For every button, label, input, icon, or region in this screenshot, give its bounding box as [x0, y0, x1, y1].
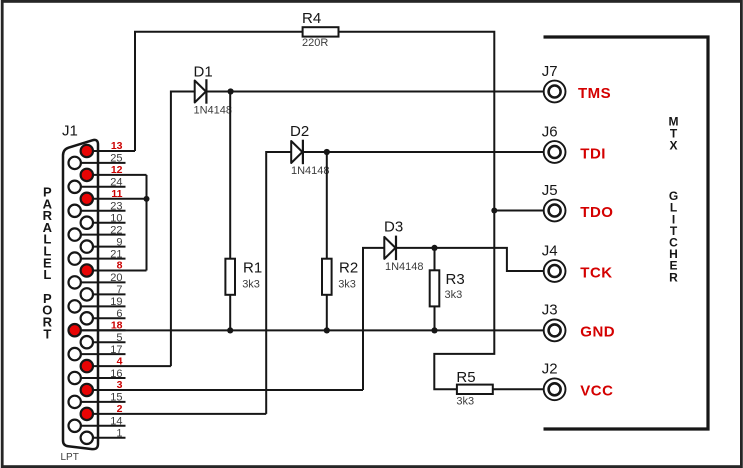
svg-text:23: 23	[110, 201, 122, 213]
svg-text:19: 19	[110, 296, 122, 308]
svg-text:20: 20	[110, 272, 122, 284]
connector J1 body	[63, 140, 98, 449]
svg-text:3k3: 3k3	[445, 289, 463, 301]
svg-text:J7: J7	[542, 63, 558, 80]
wire R4 right / down / across to R5 feed	[339, 32, 495, 390]
svg-text:R5: R5	[456, 369, 475, 386]
J1 pin 12	[81, 164, 147, 181]
J1 pin 22	[69, 224, 126, 240]
svg-text:24: 24	[110, 177, 122, 189]
wire junction down to R2	[326, 152, 328, 259]
J1 pin 6	[81, 308, 126, 324]
wire D3 cathode to junction	[396, 247, 435, 249]
svg-text:17: 17	[110, 344, 122, 356]
junction D3/R3	[431, 245, 437, 251]
connector J6	[542, 123, 566, 163]
resistor R5	[456, 369, 492, 408]
svg-text:R2: R2	[339, 259, 358, 276]
svg-text:4: 4	[117, 355, 123, 367]
svg-text:3: 3	[117, 379, 123, 391]
wire pin13 up to R4	[135, 32, 303, 151]
svg-text:22: 22	[110, 224, 122, 236]
svg-text:J6: J6	[542, 123, 558, 140]
wire pin3 to D3 anode	[363, 248, 384, 390]
svg-text:TMS: TMS	[578, 85, 611, 102]
wire tying pins 12,11,8	[146, 175, 148, 271]
svg-text:T: T	[43, 326, 51, 341]
diode D2	[290, 123, 330, 177]
svg-text:1N4148: 1N4148	[291, 165, 330, 177]
J1 pin 21	[69, 248, 126, 264]
svg-text:12: 12	[111, 164, 123, 176]
junction R3/GND	[431, 327, 437, 333]
svg-text:8: 8	[117, 260, 123, 272]
J1 pin 4	[81, 355, 171, 372]
J1 pin 11	[81, 188, 147, 205]
connector J7	[542, 63, 566, 103]
svg-text:D2: D2	[290, 123, 309, 140]
J1 pin 5	[81, 332, 126, 348]
svg-text:11: 11	[111, 188, 122, 200]
svg-text:X: X	[669, 139, 677, 153]
junction TDO tap	[491, 208, 497, 214]
junction R2/GND	[324, 327, 330, 333]
svg-text:R: R	[669, 270, 678, 284]
svg-text:R3: R3	[446, 271, 465, 288]
svg-text:J5: J5	[542, 182, 558, 199]
svg-text:25: 25	[110, 153, 122, 165]
J1 pin 7	[81, 284, 126, 300]
svg-text:1N4148: 1N4148	[385, 261, 424, 273]
svg-text:D1: D1	[194, 64, 213, 81]
junction D2/R2	[324, 149, 330, 155]
J1 pin 23	[69, 201, 126, 217]
svg-text:6: 6	[116, 308, 122, 320]
J1 pin 1	[81, 428, 126, 444]
svg-text:GND: GND	[580, 324, 615, 341]
wire pin4 to D1 anode	[171, 92, 195, 367]
J1 pin 9	[81, 236, 126, 252]
svg-text:5: 5	[116, 332, 122, 344]
wire D2 cathode to J6	[303, 151, 544, 153]
svg-text:16: 16	[110, 368, 122, 380]
wire R5 to J2	[493, 388, 544, 390]
wire D1 cathode to J7	[206, 91, 543, 93]
svg-text:TDI: TDI	[580, 145, 606, 162]
svg-text:220R: 220R	[302, 37, 328, 49]
J1 pin 16	[69, 368, 126, 384]
J1 pin 20	[69, 272, 126, 288]
svg-text:15: 15	[110, 392, 122, 404]
J1 pin 15	[69, 392, 126, 408]
resistor R3	[430, 270, 465, 306]
svg-text:14: 14	[110, 416, 122, 428]
diode D1	[194, 64, 233, 117]
svg-text:J1: J1	[62, 123, 78, 140]
svg-text:VCC: VCC	[580, 383, 613, 400]
svg-text:2: 2	[117, 403, 123, 415]
J1 pin 19	[69, 296, 126, 312]
label PARALLEL PORT (vertical)	[42, 185, 52, 342]
svg-text:TDO: TDO	[580, 204, 613, 221]
wire GND rail pin18 to J3	[81, 329, 544, 331]
J1 pin 18	[69, 319, 126, 336]
J1 pin 2	[81, 403, 267, 420]
J1 pin 25	[69, 153, 126, 169]
svg-text:LPT: LPT	[61, 452, 79, 463]
J1 pin 3	[81, 379, 363, 396]
svg-text:9: 9	[116, 236, 122, 248]
svg-text:L: L	[43, 267, 51, 282]
svg-text:3k3: 3k3	[456, 396, 474, 408]
diode D3	[384, 219, 424, 274]
wire junction to J5	[494, 210, 544, 212]
wire pin2 to D2 anode	[266, 152, 291, 414]
wire junction down to R3	[434, 248, 436, 270]
svg-text:1: 1	[116, 428, 122, 440]
svg-text:R4: R4	[302, 10, 321, 27]
junction R1/GND	[227, 327, 233, 333]
svg-text:21: 21	[110, 248, 122, 260]
J1 pin 14	[69, 416, 126, 432]
MTX glitcher box outline	[544, 37, 709, 429]
svg-text:10: 10	[110, 213, 122, 225]
wire junction to J4 (TCK)	[435, 248, 544, 271]
resistor R4	[302, 10, 339, 49]
svg-text:J2: J2	[542, 361, 558, 378]
resistor R2	[322, 259, 358, 295]
svg-text:TCK: TCK	[580, 264, 612, 281]
svg-text:3k3: 3k3	[338, 279, 356, 291]
junction pin11 tie	[144, 196, 150, 202]
wire R2 to GND rail	[326, 295, 328, 331]
wire R3 to GND rail	[434, 306, 436, 330]
svg-text:1N4148: 1N4148	[194, 105, 233, 117]
junction D1/R1	[228, 88, 234, 94]
connector J4	[542, 242, 566, 282]
connector J3	[542, 302, 566, 342]
svg-text:J3: J3	[542, 302, 558, 319]
wire R1 to GND rail	[229, 295, 231, 331]
svg-text:13: 13	[111, 140, 123, 152]
resistor R1	[225, 259, 262, 295]
svg-text:J4: J4	[542, 242, 558, 259]
svg-text:3k3: 3k3	[242, 279, 260, 291]
connector J2	[542, 361, 566, 401]
J1 pin 8	[81, 260, 147, 277]
label GLITCHER (vertical)	[669, 189, 678, 284]
J1 pin 17	[69, 344, 126, 360]
wire junction down to R1	[229, 92, 231, 259]
connector J5	[542, 182, 566, 222]
J1 pin 13	[81, 140, 135, 157]
svg-text:R1: R1	[243, 259, 262, 276]
svg-text:7: 7	[116, 284, 122, 296]
J1 pin 10	[81, 213, 126, 229]
label MTX (vertical)	[669, 115, 679, 153]
J1 pin 24	[69, 177, 126, 193]
svg-text:D3: D3	[384, 219, 403, 236]
